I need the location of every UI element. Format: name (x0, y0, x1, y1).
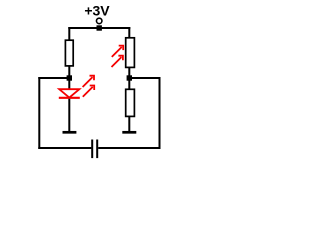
svg-text:+3V: +3V (84, 3, 110, 19)
wire R3 bottom (128, 116, 130, 132)
light arrow 2 onto R2 (112, 56, 123, 67)
node B junction right (127, 75, 132, 80)
electrode terminal bar left (63, 131, 77, 134)
wire node B to R3 (128, 80, 130, 90)
light arrow 1 onto R2 (112, 46, 123, 57)
wire node A to LED anode (68, 80, 70, 90)
wire node B to right rail (129, 77, 160, 79)
supply terminal circle (96, 18, 102, 24)
LED light arrow 2 (83, 86, 94, 97)
wire left vertical (38, 77, 40, 149)
capacitor C1 left plate (91, 140, 93, 159)
wire R1 bottom to node (68, 66, 70, 78)
node A junction left (67, 75, 72, 80)
node junction at +3V rail (97, 25, 102, 30)
wire left drop from rail (68, 27, 70, 40)
wire right vertical (159, 77, 161, 149)
wire right drop from rail (128, 27, 130, 38)
wire node A to left rail (38, 77, 69, 79)
LED D1 triangle (59, 89, 79, 97)
LED light arrow 1 (83, 76, 94, 87)
resistor R3 (126, 89, 135, 116)
wire bottom left (38, 147, 91, 149)
electrode terminal bar right (122, 131, 136, 134)
capacitor C1 right plate (96, 140, 98, 159)
resistor R1 (65, 40, 73, 66)
LED D1 cathode bar (59, 97, 80, 99)
wire LED cathode down (68, 99, 70, 132)
wire R2 bottom to node (128, 67, 130, 78)
wire top rail (68, 27, 130, 29)
wire bottom right (98, 147, 160, 149)
photoresistor R2 (126, 38, 135, 68)
